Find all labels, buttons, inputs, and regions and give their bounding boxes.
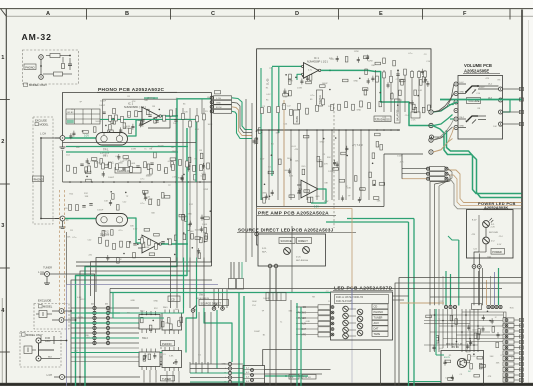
phono R channel green input <box>65 218 96 220</box>
LED D211 source <box>284 248 291 255</box>
PRE AMP PCB bottom edge <box>257 206 384 208</box>
junction dots power area <box>434 314 436 316</box>
selector text labels <box>74 297 202 357</box>
grid tick top <box>170 9 172 20</box>
svg-text:7.5K 1/4: 7.5K 1/4 <box>303 377 311 379</box>
bottom connector pin column <box>228 362 231 365</box>
svg-text:10K: 10K <box>67 236 71 238</box>
svg-text:10K: 10K <box>104 201 108 203</box>
grid tick top <box>338 9 340 20</box>
label PHONO link box <box>33 176 44 182</box>
svg-text:33K: 33K <box>182 216 186 218</box>
wire green right vertical pair b <box>408 222 410 386</box>
wafer bottom pin drops <box>143 370 145 383</box>
svg-text:1000P: 1000P <box>195 230 202 232</box>
vertical label BASS <box>294 110 300 124</box>
svg-text:D131 SLP-9135: D131 SLP-9135 <box>336 301 353 303</box>
svg-text:1/2W: 1/2W <box>328 171 333 173</box>
selector connector column B <box>106 306 109 309</box>
svg-text:1/2W: 1/2W <box>131 148 136 150</box>
phono bottom rail <box>76 261 212 263</box>
volume harness wavy wire 5 <box>433 84 454 112</box>
svg-text:POWER: POWER <box>492 251 502 254</box>
led pcb feed connector small <box>266 293 286 301</box>
wire right purple drop <box>351 289 353 311</box>
svg-text:+7 ( 7.4 )V: +7 ( 7.4 )V <box>352 145 363 147</box>
svg-text:10K: 10K <box>175 309 179 311</box>
svg-text:B: B <box>125 11 129 17</box>
svg-text:MODEL ONLY: MODEL ONLY <box>29 83 47 87</box>
selector connector column A <box>93 306 96 309</box>
right edge pin column <box>503 318 514 322</box>
svg-text:AUX: AUX <box>374 321 380 325</box>
volume pot lower L <box>466 116 478 122</box>
tone connector CN boxes <box>430 167 446 171</box>
svg-text:EXCLUDE: EXCLUDE <box>35 120 47 123</box>
volume harness wavy wires <box>433 94 454 113</box>
tan horizontal bottom right <box>400 302 444 304</box>
tone connector pins left <box>427 167 430 170</box>
svg-text:47K: 47K <box>488 376 492 378</box>
connector J1 option <box>39 55 44 60</box>
vertical feeds green <box>183 258 185 309</box>
phono right vertical rails <box>175 108 177 262</box>
preamp tan vertical <box>283 100 285 206</box>
svg-text:GND: GND <box>153 301 158 303</box>
wire bus corner 1 <box>96 258 171 293</box>
svg-text:47K: 47K <box>149 199 153 201</box>
svg-text:GND: GND <box>216 103 221 105</box>
grid tick left <box>0 183 10 185</box>
wafer internals <box>141 317 183 331</box>
svg-text:10K: 10K <box>295 160 299 162</box>
wires below source led pcb <box>269 268 271 292</box>
svg-text:CD: CD <box>171 297 175 301</box>
svg-text:47K: 47K <box>324 163 328 165</box>
switch wafer SW2-2 outline <box>162 313 182 330</box>
svg-text:A: A <box>46 11 50 17</box>
svg-text:VOLUME PCB: VOLUME PCB <box>464 63 492 68</box>
svg-text:SW 1: SW 1 <box>199 294 206 297</box>
LED PCB outline <box>331 292 393 340</box>
wire green right vertical pair a <box>413 219 415 386</box>
phono stage1 components <box>105 108 160 133</box>
capacitor C904 <box>24 346 32 354</box>
op-amp IC1a NJM2068D <box>142 107 159 125</box>
transistor TR39 circle <box>457 358 466 367</box>
tone defeat rails right <box>375 70 377 112</box>
SOURCE DIRECT LED PCB outline <box>258 234 326 266</box>
volume text labels <box>465 78 503 128</box>
wires into tone connector from left <box>402 168 427 170</box>
junction IC2 out <box>329 70 331 72</box>
svg-text:3: 3 <box>1 223 4 229</box>
svg-text:AM-32: AM-32 <box>22 32 52 42</box>
bottom middle resistor boxes <box>289 375 299 380</box>
svg-text:EXCLUDE: EXCLUDE <box>38 299 51 303</box>
svg-text:C: C <box>211 11 215 17</box>
svg-text:2.2K: 2.2K <box>491 227 496 229</box>
svg-text:2.2K: 2.2K <box>172 177 177 179</box>
preamp left green vertical <box>260 68 262 200</box>
wire gray S-route <box>448 180 522 209</box>
green into TR block <box>436 354 444 356</box>
phono lower rails 2 <box>70 0 216 199</box>
power led text labels <box>472 227 504 259</box>
svg-text:NJM2068D ( 1/2 ): NJM2068D ( 1/2 ) <box>124 105 146 109</box>
wire bus corner green B <box>76 128 188 386</box>
power section vertical rails <box>429 309 431 352</box>
preamp components mid <box>288 133 385 203</box>
green horizontal bottom middle <box>265 375 308 377</box>
wire bus corner 2 <box>91 262 178 297</box>
led pcb left connector boxes <box>318 305 330 310</box>
volume right pin wires to border <box>503 88 522 90</box>
bottom right text labels <box>438 301 514 379</box>
op-amp IC1a pins <box>138 111 142 113</box>
label U MODEL ONLY <box>22 333 26 336</box>
green pair mid page horizontal <box>66 146 188 148</box>
svg-text:10K: 10K <box>493 126 497 128</box>
svg-text:33K: 33K <box>371 65 375 67</box>
green weave 4 <box>238 293 240 386</box>
power led drops to connector row <box>473 268 475 305</box>
svg-text:6.8K: 6.8K <box>445 377 450 379</box>
svg-text:56K: 56K <box>490 356 494 358</box>
svg-text:47K: 47K <box>132 101 136 103</box>
svg-text:BASS: BASS <box>296 116 299 123</box>
svg-text:DAT: DAT <box>302 328 307 331</box>
svg-text:1/2W: 1/2W <box>288 81 293 83</box>
svg-text:SLP-9001-H: SLP-9001-H <box>296 260 308 262</box>
svg-text:6.8K: 6.8K <box>145 247 150 249</box>
op-amp IC1b <box>142 235 159 253</box>
bottom middle pins <box>251 369 254 372</box>
svg-text:33K: 33K <box>85 196 89 198</box>
power amp section outline corner 1 <box>399 278 522 386</box>
volume pot upper wiper <box>472 90 476 94</box>
svg-text:47K: 47K <box>472 234 476 236</box>
phono upper component rails <box>104 0 130 99</box>
switch SW1 contact b <box>212 307 216 311</box>
svg-text:47K: 47K <box>485 78 489 80</box>
top mini connector boxes <box>229 279 236 290</box>
wire long mid horizontal to right <box>296 292 331 294</box>
svg-text:L CH: L CH <box>47 374 53 377</box>
svg-text:D 11: D 11 <box>262 248 267 250</box>
op-amp IC1b output bubble <box>159 243 161 245</box>
svg-text:1/2W: 1/2W <box>203 189 208 191</box>
vertical label BALANCE <box>395 99 401 123</box>
op-amp IC2b pins <box>297 184 301 186</box>
TR block outline <box>441 351 484 386</box>
svg-text:CD: CD <box>374 305 378 309</box>
switch wafer SW2-1 outline <box>139 315 160 330</box>
svg-text:10K: 10K <box>318 160 322 162</box>
svg-text:56K: 56K <box>151 213 155 215</box>
dashed box U MODEL ONLY <box>20 332 61 368</box>
power area horizontals 2 <box>462 311 503 313</box>
balance pot small box <box>411 112 420 118</box>
selector area wires horizontal <box>71 347 139 349</box>
green supply segment above opamp <box>144 97 158 99</box>
selector to preamp risers <box>213 289 215 308</box>
svg-text:0.5V: 0.5V <box>85 337 90 339</box>
switch wafer SW2-4 outline <box>162 351 182 368</box>
svg-text:B1.2V: B1.2V <box>444 357 450 359</box>
long horizontal bus y288 <box>110 288 502 290</box>
svg-text:100K: 100K <box>130 163 135 165</box>
wires led pcb left entries <box>296 306 318 308</box>
svg-text:1: 1 <box>1 55 4 61</box>
FET pair TR1 2SK389 oval <box>96 133 128 146</box>
switch SW1 contact c <box>221 307 225 311</box>
svg-text:33K: 33K <box>276 133 280 135</box>
svg-text:2.2K: 2.2K <box>471 356 476 358</box>
wire U model vertical <box>38 343 40 356</box>
phono text labels mid <box>66 146 207 181</box>
border frame left line <box>5 9 7 386</box>
wire green opamp2 out <box>162 243 188 245</box>
wire green phono L input <box>65 137 96 139</box>
svg-text:100K: 100K <box>287 158 292 160</box>
svg-text:SL-05: SL-05 <box>267 78 270 85</box>
svg-text:2: 2 <box>1 139 4 145</box>
risers above bottom connector <box>189 362 191 373</box>
svg-text:MODEL ONLY: MODEL ONLY <box>26 333 43 337</box>
wire green opamp out to connector <box>162 99 212 116</box>
svg-text:2A-1: 2A-1 <box>140 310 145 313</box>
volume pot lower wiper <box>472 120 476 124</box>
svg-text:33K: 33K <box>202 167 206 169</box>
wires selector columns cross <box>71 307 139 309</box>
preamp text labels lower <box>260 133 404 203</box>
phono output connector CN102 boxes <box>214 96 232 100</box>
svg-text:6.8K: 6.8K <box>169 355 174 357</box>
VOLUME PCB outline <box>458 76 503 140</box>
label MODEL ONLY <box>24 83 28 87</box>
ground symbol tuner L <box>46 277 48 284</box>
label PHONO option <box>24 64 36 70</box>
svg-text:0.5V: 0.5V <box>260 159 265 161</box>
wire feedback phono <box>148 116 170 128</box>
svg-text:0.5V: 0.5V <box>133 229 138 231</box>
svg-text:-0.5V: -0.5V <box>313 206 319 209</box>
main pcb outline bottom middle <box>263 350 381 386</box>
ground symbol CD input <box>62 141 64 148</box>
svg-text:1000P: 1000P <box>254 331 261 333</box>
PRE AMP PCB outline <box>257 49 431 207</box>
svg-text:1000P: 1000P <box>322 83 329 85</box>
long vertical gray x292 <box>291 226 293 292</box>
label PHONO selector <box>161 341 175 346</box>
svg-text:6.8K: 6.8K <box>289 176 294 178</box>
svg-text:1000P: 1000P <box>100 101 107 103</box>
svg-text:10K: 10K <box>184 111 188 113</box>
op-amp IC2b <box>301 180 318 198</box>
junction opamp out <box>176 115 178 117</box>
svg-text:AUX: AUX <box>301 323 306 326</box>
border frame right line <box>521 10 523 386</box>
phono mid bus <box>63 181 213 183</box>
right edge pads lower column <box>519 318 523 321</box>
wire harness preamp to volume 4 <box>434 139 453 153</box>
svg-text:0.5V: 0.5V <box>201 175 206 177</box>
small part above connector <box>215 91 221 94</box>
dashed box US model phono option <box>23 50 79 84</box>
svg-text:1/2W: 1/2W <box>368 60 373 62</box>
wire phono link vertical <box>40 138 42 219</box>
long vertical black x246 <box>245 99 247 262</box>
led column 2 <box>357 309 363 315</box>
svg-text:1000P: 1000P <box>479 87 486 89</box>
svg-text:GND: GND <box>130 300 135 302</box>
phono mid component rails <box>68 0 182 155</box>
wire exclude box <box>47 313 52 315</box>
svg-text:100K: 100K <box>148 98 153 100</box>
wire harness preamp to volume 1 <box>433 104 453 113</box>
preamp bottom exit wires <box>383 154 385 207</box>
capacitor C902 <box>69 58 71 64</box>
svg-text:MODEL: MODEL <box>40 123 50 126</box>
source led pins <box>268 264 272 268</box>
wire bus corner green A <box>85 116 177 386</box>
tone connector pins right <box>445 167 448 170</box>
wire tuner input run <box>50 274 95 306</box>
connector phono input R <box>60 216 65 221</box>
svg-text:GND: GND <box>187 214 192 216</box>
bottom connector box <box>243 366 265 386</box>
feeds bottom right gray <box>442 276 444 305</box>
svg-text:0.5V: 0.5V <box>472 330 477 332</box>
svg-text:L CH: L CH <box>40 132 46 136</box>
bus drop at x110 <box>109 289 111 314</box>
wire tan S-route 2 <box>448 175 522 206</box>
switch wafer lower pins <box>141 349 143 353</box>
phono right rail components <box>174 210 211 258</box>
long horizontal bus y292 <box>110 292 296 294</box>
wire tan S-route 1 <box>448 170 522 203</box>
wire tone top pin link <box>434 136 444 138</box>
grid tick top <box>509 9 511 20</box>
svg-text:2.2K: 2.2K <box>411 120 416 122</box>
preamp bus junction dots <box>261 129 263 131</box>
connector tuner input L <box>45 272 50 277</box>
wire green volume out right <box>503 100 511 113</box>
wire green horizontals into right pair <box>347 218 414 220</box>
wire harness preamp to volume 3 <box>434 127 453 140</box>
svg-text:PHONO: PHONO <box>162 342 172 346</box>
power section connector row boxes <box>472 304 482 310</box>
switch wafer SW2-3 outline <box>139 352 160 367</box>
grid tick left <box>0 351 10 353</box>
wire bus corner 3 <box>80 271 190 386</box>
ground symbol phono R <box>62 221 64 227</box>
svg-text:PHONO: PHONO <box>374 310 384 314</box>
phono lower component rails <box>100 0 263 224</box>
green long from phono area down left <box>66 232 68 285</box>
connector switched AC L <box>36 338 41 343</box>
svg-text:PHONO: PHONO <box>25 65 35 69</box>
svg-text:MODEL: MODEL <box>43 305 53 309</box>
svg-text:100K: 100K <box>374 119 379 121</box>
tan dashed pair bottom left <box>59 190 61 311</box>
wires into bottom connector <box>190 363 228 365</box>
phono bottom edge <box>76 265 212 267</box>
green weave 6 <box>113 317 164 319</box>
preamp dashed linkage vertical <box>333 103 335 228</box>
tone connector wires to drops <box>439 169 452 186</box>
SW1 drops to bottom connector <box>192 312 194 364</box>
dashed box EXCLUDE MODEL phono link <box>33 117 53 224</box>
svg-text:6.8K: 6.8K <box>192 310 197 312</box>
wire green S-route 1 <box>433 126 522 198</box>
junction option <box>69 55 71 57</box>
svg-text:GND: GND <box>262 193 267 195</box>
switch wafer SW2-2 pins <box>164 310 166 314</box>
power section connector row circles B <box>487 305 490 308</box>
wire harness phono connector to preamp <box>232 98 252 130</box>
phono bias network row1 <box>69 127 96 140</box>
svg-text:L CH: L CH <box>38 270 44 274</box>
svg-text:1000P: 1000P <box>146 176 153 178</box>
svg-text:SLP-9145: SLP-9145 <box>489 232 499 234</box>
wires source pcb down to bottom <box>269 268 271 386</box>
preamp upper component rails <box>131 0 262 83</box>
svg-text:6.8K: 6.8K <box>347 187 352 189</box>
svg-text:33K: 33K <box>327 157 331 159</box>
svg-text:DAT: DAT <box>374 327 379 331</box>
connector CD input L <box>60 136 65 141</box>
led pcb note box <box>335 295 389 304</box>
svg-text:TUNER: TUNER <box>374 316 383 320</box>
svg-text:1000P: 1000P <box>95 121 102 123</box>
svg-text:10K: 10K <box>465 121 469 123</box>
phono right edge <box>211 99 213 266</box>
colored feeds into connector row <box>486 280 488 305</box>
svg-text:6.8K: 6.8K <box>306 321 311 323</box>
connector preamp to volume pins <box>429 110 433 114</box>
preamp input jumper cluster <box>253 128 263 145</box>
svg-text:0.5V: 0.5V <box>266 94 271 96</box>
svg-text:1/2W: 1/2W <box>297 88 302 90</box>
label POWER box <box>491 249 505 255</box>
svg-text:DC: DC <box>468 371 472 373</box>
power bus y297 <box>430 296 522 298</box>
op-amp IC2a NJM4558D <box>304 63 319 79</box>
svg-text:1000P: 1000P <box>99 105 106 107</box>
riser wires above mini connector <box>230 262 232 279</box>
SW1 drops green <box>216 310 218 369</box>
label VOLUME box <box>467 98 481 104</box>
wire green lower right vertical <box>458 240 460 306</box>
svg-text:TR 39: TR 39 <box>452 346 459 349</box>
tone connector drops to power row <box>448 160 459 169</box>
PHONO PCB outline <box>63 93 212 136</box>
svg-text:56K: 56K <box>377 200 381 202</box>
grid tick top <box>254 9 256 20</box>
label DIRECT small box <box>297 238 312 244</box>
TR block internals <box>443 353 485 380</box>
svg-text:TUNER: TUNER <box>43 266 52 270</box>
svg-text:GND: GND <box>315 196 320 198</box>
svg-text:33K: 33K <box>130 226 134 228</box>
option connect stubs lower-left <box>64 310 71 312</box>
led labels right column <box>372 304 388 309</box>
border frame top line <box>0 8 533 10</box>
wire bus corner 4 <box>71 280 212 386</box>
POWER LED PCB outline <box>467 210 514 259</box>
